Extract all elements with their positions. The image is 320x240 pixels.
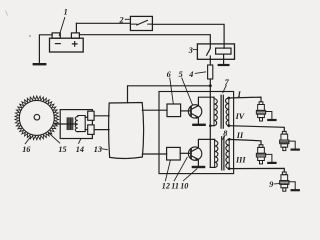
label 5 leader [182, 78, 193, 105]
battery GB body [50, 38, 84, 52]
ground under box 3 [219, 64, 229, 66]
svg-text:IV: IV [235, 112, 246, 121]
pickup sensor box 14 [60, 110, 92, 139]
ground Q11 emitter [193, 166, 204, 168]
gear wheel 16 teeth [15, 96, 59, 140]
transformer T8 primary winding [215, 139, 218, 167]
switch SA2 box [130, 16, 152, 30]
Q11 collector riser to primary [198, 139, 214, 147]
wire output III to plug 3 [229, 168, 284, 172]
T7 primary bottom feed [210, 125, 214, 127]
Q11 emitter diagonal [191, 156, 198, 160]
wire top rail switch to corner [152, 24, 224, 44]
Q11 emitter drop to ground [197, 159, 199, 166]
svg-text:8: 8 [223, 129, 227, 138]
box3 switch blade [207, 48, 211, 55]
T8 primary core-side line [214, 139, 216, 167]
T7 secondary core-side line [228, 98, 230, 126]
wire box12 to transistor 11 base [180, 152, 191, 154]
spark plug IV [280, 131, 299, 150]
resistor 4 [208, 65, 213, 79]
wire battery minus to ground [39, 35, 52, 64]
label 16 leader [25, 137, 30, 144]
wire junction down primary feed [209, 86, 211, 168]
svg-text:5: 5 [179, 70, 183, 79]
switch contact stubs [130, 23, 152, 25]
T8 secondary winding [226, 139, 229, 168]
spark plug III [280, 172, 299, 191]
svg-text:9: 9 [269, 180, 273, 189]
label 10 leader [183, 169, 197, 181]
wire output II to plug 2 [229, 139, 261, 144]
T8 core lines [222, 137, 224, 170]
wire box3 to resistor 4 [209, 59, 211, 65]
pickup magnet core hatched [67, 117, 74, 130]
Q5 collector diagonal [191, 106, 198, 110]
ground Q5 emitter [193, 124, 204, 126]
battery terminal minus post [52, 33, 60, 38]
node T8 secondary top dot [228, 138, 231, 141]
spark plug I [256, 102, 275, 121]
svg-text:1: 1 [64, 8, 68, 17]
svg-text:3: 3 [188, 46, 193, 55]
wire output IV to plug 4 [229, 126, 284, 132]
transistor Q11 circle [188, 147, 201, 160]
label 12 leader [165, 161, 170, 181]
svg-text:15: 15 [58, 145, 66, 154]
svg-text:14: 14 [76, 145, 84, 154]
T8 primary bottom feed [210, 166, 214, 168]
label 15 leader [49, 133, 60, 143]
T7 primary core-side line [213, 97, 215, 126]
label 1 leader [59, 18, 65, 36]
svg-text:13: 13 [94, 145, 102, 154]
pickup pole axis line [55, 123, 77, 125]
transistor Q5 circle [188, 105, 201, 118]
wire terminal upper to unit 13 [94, 115, 109, 117]
label 4 leader dash [195, 72, 205, 74]
gear disc 16 [19, 100, 54, 135]
pickup output wire upper [85, 116, 88, 118]
trigger stage box 12 [167, 147, 181, 160]
wire terminal lower to unit 13 [94, 129, 109, 131]
wire box6 to transistor 5 base [181, 110, 191, 112]
svg-text:16: 16 [22, 145, 31, 154]
T8 secondary core-side line [228, 139, 230, 168]
label 2 leader dash [125, 18, 129, 20]
connector terminal upper [88, 111, 94, 120]
wire lower rail from battery plus [79, 35, 210, 44]
battery plus sign [72, 42, 77, 47]
wire output I to plug 1 [229, 97, 261, 102]
box3 resistor [216, 48, 231, 54]
battery minus sign [55, 43, 60, 45]
label 8 leader [223, 137, 225, 140]
svg-text:11: 11 [171, 181, 179, 190]
battery terminal plus post [71, 33, 79, 38]
gear shaft hole [34, 114, 40, 120]
box3 switch exit stub [209, 56, 211, 59]
electronic unit box (commutator block) [159, 92, 234, 174]
Q5 base bar [190, 107, 192, 116]
label 6 leader [170, 78, 174, 104]
box3 resistor top feed [223, 44, 225, 48]
Q5 emitter drop to ground [197, 117, 199, 124]
label 7 leader [223, 85, 226, 92]
node T7 secondary top dot [227, 97, 230, 100]
svg-text:4: 4 [188, 70, 193, 79]
stray scan mark top-left [6, 11, 8, 16]
Q11 emitter arrowhead [195, 159, 198, 161]
box3 resistor bottom to ground stem [223, 54, 225, 65]
spark plug II [256, 145, 275, 164]
label 13 leader dash [102, 148, 108, 151]
node primary7 feed dot [209, 124, 212, 127]
Q5 emitter diagonal [191, 113, 198, 117]
Q5 emitter arrowhead [195, 117, 198, 119]
switch blade [137, 20, 148, 25]
box3 switch entry stub [209, 44, 211, 48]
Q5 collector riser to primary [198, 97, 214, 105]
pickup coil winding [75, 116, 85, 132]
connector terminal lower [88, 125, 94, 134]
label 11 leader [174, 157, 187, 181]
stray scan dot [29, 35, 31, 37]
wire battery plus riser to top rail [75, 23, 77, 33]
wire resistor 4 down to junction [209, 79, 211, 86]
T7 secondary winding [226, 98, 229, 126]
svg-text:II: II [236, 131, 244, 140]
label 3 leader dash [193, 49, 197, 51]
trigger stage box 6 [167, 104, 181, 117]
node T8 secondary bottom dot [228, 167, 231, 170]
Q11 collector diagonal [191, 148, 198, 152]
svg-text:12: 12 [162, 181, 170, 190]
T7 core lines [221, 95, 223, 128]
wire unit13 to trigger box 12 [142, 153, 166, 155]
transformer T7 primary winding [214, 97, 217, 126]
ground under battery [34, 63, 45, 65]
wire junction to unit 13 top [128, 86, 211, 103]
node junction dot [209, 84, 212, 87]
svg-text:10: 10 [180, 181, 188, 190]
label 14 leader [79, 139, 81, 143]
label 9 leader dash [274, 183, 280, 185]
control unit 13 barrel [109, 103, 144, 159]
svg-text:2: 2 [119, 16, 124, 25]
pickup output wire lower [85, 129, 88, 131]
wire unit13 to trigger box 6 [142, 109, 167, 111]
node T7 secondary bottom dot [227, 124, 230, 127]
svg-text:III: III [235, 156, 246, 165]
wire top rail to switch [76, 22, 130, 24]
Q11 base bar [190, 149, 192, 158]
relay box 3 [197, 44, 234, 59]
